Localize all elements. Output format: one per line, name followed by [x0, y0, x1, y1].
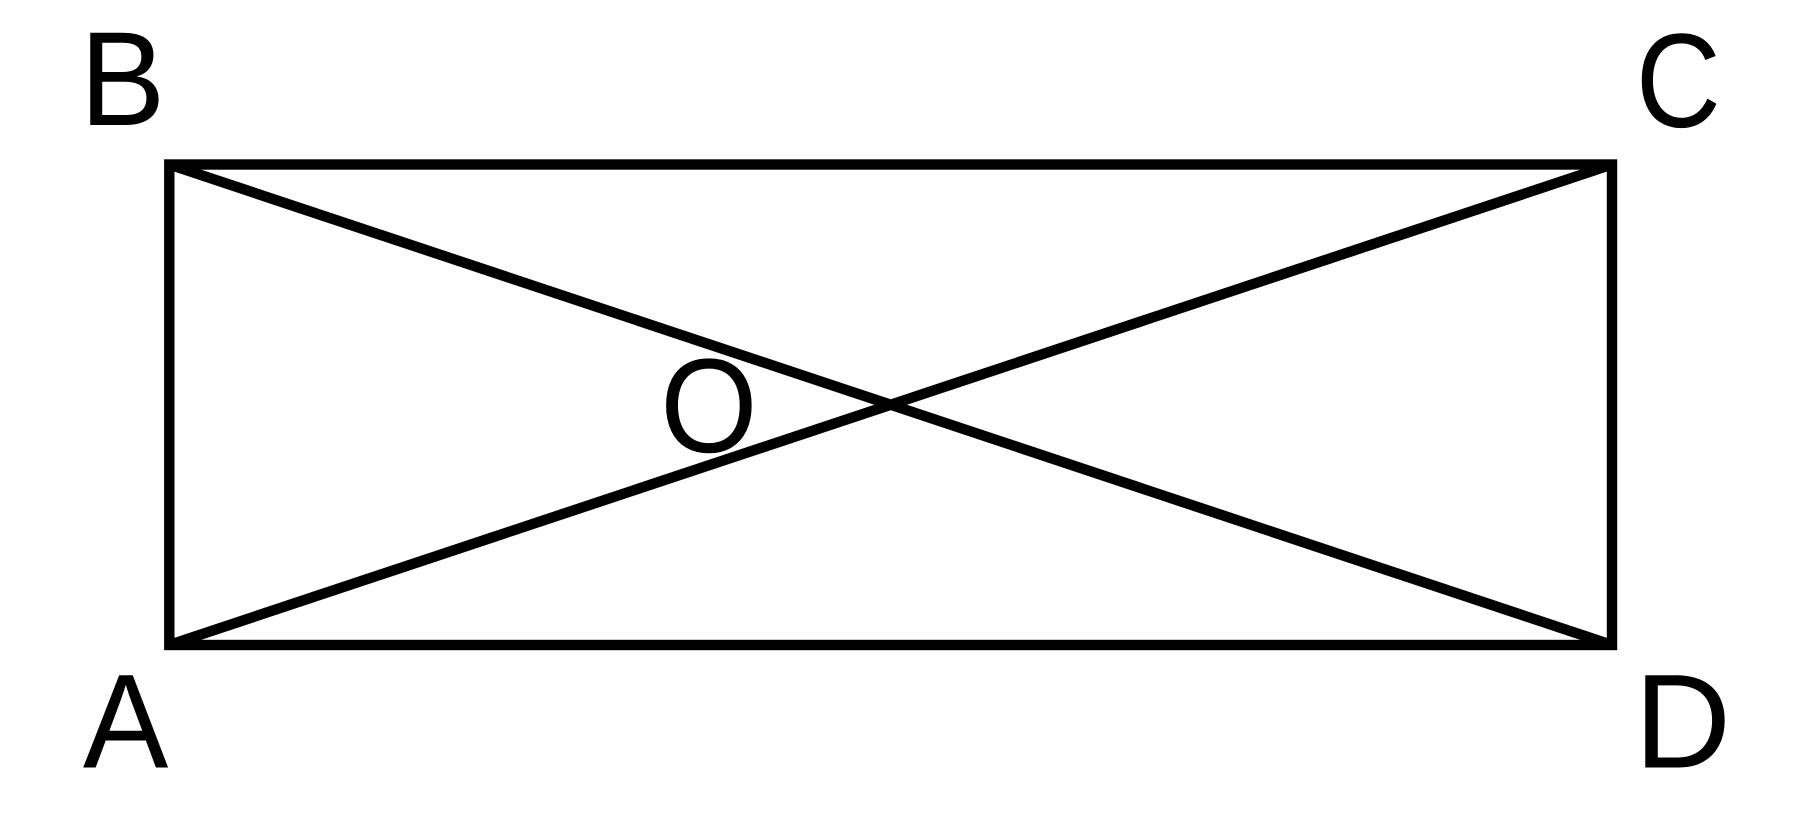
rectangle ABCD [169, 165, 1612, 646]
svg-text:O: O [660, 332, 757, 481]
diagonal AC [169, 165, 1612, 646]
svg-text:D: D [1634, 648, 1731, 797]
svg-text:B: B [80, 3, 166, 153]
diagonal BD [169, 165, 1612, 646]
svg-text:A: A [83, 646, 169, 796]
svg-text:C: C [1636, 6, 1721, 156]
